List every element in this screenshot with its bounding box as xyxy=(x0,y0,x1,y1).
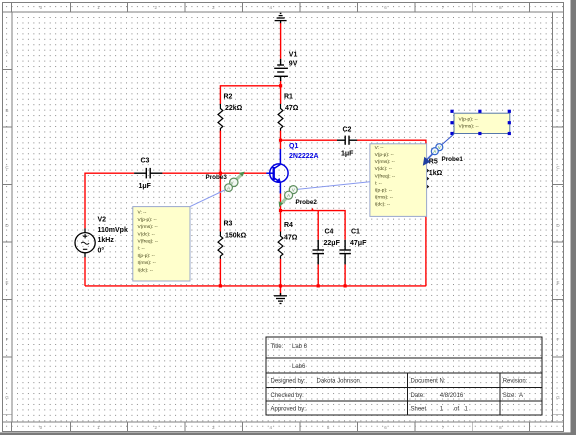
svg-text:V(freq): --: V(freq): -- xyxy=(375,173,396,179)
junction C4/rail xyxy=(317,284,320,287)
svg-text:Q1: Q1 xyxy=(289,143,298,150)
probe2 readout box xyxy=(370,144,427,217)
svg-text:I(p-p): --: I(p-p): -- xyxy=(375,188,393,194)
wire: top rail R2-top to battery junction xyxy=(220,86,280,104)
battery V1 xyxy=(274,52,297,82)
svg-text:V(dc): --: V(dc): -- xyxy=(375,166,393,172)
svg-text:A: A xyxy=(5,50,8,55)
wire: C2 right to R5 top xyxy=(357,140,426,164)
resistor R4 xyxy=(278,222,298,259)
wire: R4 top xyxy=(280,211,282,232)
svg-text:1kHz: 1kHz xyxy=(98,237,115,244)
junction C1/rail xyxy=(344,284,347,287)
svg-text:R1: R1 xyxy=(284,94,293,101)
wire: base junction to R3 top xyxy=(219,173,221,231)
AC source V2 xyxy=(75,217,128,258)
svg-text:B: B xyxy=(556,108,559,113)
svg-text:V: --: V: -- xyxy=(375,145,384,151)
svg-text:V(rms): --: V(rms): -- xyxy=(459,124,480,130)
junction R3/rail xyxy=(219,284,222,287)
wire: bottom ground stem xyxy=(280,286,282,295)
probe3 icon xyxy=(225,172,245,192)
svg-text:I(p-p): --: I(p-p): -- xyxy=(138,253,156,259)
resistor R3 xyxy=(218,221,247,259)
wire: C3 right to Q1 base xyxy=(162,172,266,174)
svg-text:A: A xyxy=(287,193,290,198)
svg-text:R2: R2 xyxy=(224,94,233,101)
svg-text:V(rms): --: V(rms): -- xyxy=(138,224,159,230)
wire: emitter junction to C1 branch xyxy=(281,211,346,240)
probe1 icon (selected blue) xyxy=(423,144,443,166)
svg-text:Lab6: Lab6 xyxy=(292,364,306,370)
svg-text:Revision:: Revision: xyxy=(503,379,528,385)
svg-text:F: F xyxy=(557,337,560,342)
wire: V2 top to C3 left xyxy=(85,173,134,228)
svg-text:G: G xyxy=(556,395,560,400)
svg-text:Probe2: Probe2 xyxy=(296,199,318,206)
ground (bottom) xyxy=(274,293,287,304)
svg-text:1kΩ: 1kΩ xyxy=(429,170,443,177)
junction battery/top-rail xyxy=(279,84,282,87)
wire: emitter to emitter junction xyxy=(280,193,282,210)
wire: top ground to battery V1 top xyxy=(280,23,282,59)
svg-text:R5: R5 xyxy=(429,159,438,166)
wire: V2 bottom to rail xyxy=(84,257,86,286)
capacitor C1 xyxy=(339,229,367,265)
junction collector/C2 xyxy=(279,139,282,142)
svg-text:Sheet: Sheet xyxy=(411,407,427,413)
svg-text:V(p-p): --: V(p-p): -- xyxy=(138,217,158,223)
probe2 attach tick on wire xyxy=(310,208,313,211)
svg-text:4/8/2016: 4/8/2016 xyxy=(440,393,464,399)
svg-text:R4: R4 xyxy=(284,222,293,229)
svg-text:C1: C1 xyxy=(351,229,360,236)
svg-text:I: --: I: -- xyxy=(375,180,383,186)
svg-text:47Ω: 47Ω xyxy=(284,235,298,242)
svg-text:150kΩ: 150kΩ xyxy=(225,233,247,240)
wire: R1 bottom to collector junction xyxy=(280,131,282,150)
svg-text:22μF: 22μF xyxy=(324,240,341,247)
svg-text:V: V xyxy=(230,180,233,185)
svg-text:Approved by:: Approved by: xyxy=(271,407,307,413)
svg-text:V(freq): --: V(freq): -- xyxy=(138,239,159,245)
wire: collector junction to C2 left xyxy=(281,139,338,141)
wire: C4 bottom to rail xyxy=(317,264,319,286)
svg-text:A: A xyxy=(519,393,523,399)
probe1 readout box (selected) xyxy=(454,113,510,133)
wire: battery V1 bottom to R1 top xyxy=(280,81,282,104)
svg-text:I(rms): --: I(rms): -- xyxy=(375,195,394,201)
resistor R5 xyxy=(424,159,443,192)
resistor R2 xyxy=(218,94,243,131)
svg-text:V(p-p): --: V(p-p): -- xyxy=(375,152,395,158)
wire: C4 top tap xyxy=(317,211,319,240)
probe1 selection handles xyxy=(450,110,511,135)
capacitor C2 xyxy=(337,127,357,158)
svg-text:R3: R3 xyxy=(224,221,233,228)
svg-text:Title:: Title: xyxy=(271,344,284,350)
svg-text:F: F xyxy=(6,337,9,342)
probe1 leader line xyxy=(442,134,454,145)
svg-text:47μF: 47μF xyxy=(350,240,367,247)
svg-text:Document N:: Document N: xyxy=(411,379,446,385)
svg-text:2N2222A: 2N2222A xyxy=(289,153,319,160)
svg-text:110mVpk: 110mVpk xyxy=(98,227,128,234)
svg-text:V(rms): --: V(rms): -- xyxy=(375,159,396,165)
transistor Q1 2N2222A xyxy=(266,143,318,194)
ground (top, inverted) xyxy=(275,13,287,23)
svg-text:1μF: 1μF xyxy=(139,183,152,190)
junction R4-ground/rail xyxy=(279,284,282,287)
svg-text:V: V xyxy=(292,187,295,192)
svg-text:I(dc): --: I(dc): -- xyxy=(138,267,154,273)
svg-text:of: of xyxy=(454,407,459,413)
svg-text:G: G xyxy=(5,395,9,400)
svg-text:A: A xyxy=(433,149,436,154)
svg-text:1μF: 1μF xyxy=(341,151,354,158)
svg-text:V2: V2 xyxy=(98,217,107,224)
svg-text:Designed by:: Designed by: xyxy=(271,379,306,385)
svg-text:C4: C4 xyxy=(325,229,334,236)
svg-text:Checked by:: Checked by: xyxy=(271,393,305,399)
svg-text:Probe1: Probe1 xyxy=(442,156,464,163)
svg-text:V1: V1 xyxy=(289,52,298,59)
capacitor C3 xyxy=(134,158,162,191)
svg-text:C3: C3 xyxy=(141,158,150,165)
svg-text:B: B xyxy=(5,108,8,113)
svg-text:I: --: I: -- xyxy=(138,246,146,252)
junction emitter node xyxy=(279,209,282,212)
svg-text:A: A xyxy=(556,50,559,55)
wire: C1 bottom to rail xyxy=(344,264,346,286)
probe3 readout box xyxy=(133,207,190,281)
wire: bottom ground rail xyxy=(85,285,426,287)
svg-text:C2: C2 xyxy=(343,127,352,134)
svg-text:V: --: V: -- xyxy=(138,210,147,216)
svg-text:0°: 0° xyxy=(98,246,105,254)
svg-text:V(dc): --: V(dc): -- xyxy=(138,231,156,237)
svg-text:V: V xyxy=(438,145,441,150)
svg-text:E: E xyxy=(5,280,8,285)
wire: R3 bottom to rail xyxy=(219,259,221,286)
svg-text:Probe3: Probe3 xyxy=(206,174,228,181)
probe2 icon xyxy=(279,186,298,208)
svg-text:Size:: Size: xyxy=(503,393,517,399)
junction base/R2-R3 xyxy=(219,172,222,175)
svg-text:9V: 9V xyxy=(289,61,298,68)
svg-text:Date:: Date: xyxy=(411,393,426,399)
resistor R1 xyxy=(278,94,299,131)
probe3 leader line xyxy=(190,189,227,207)
svg-text:Lab 6: Lab 6 xyxy=(292,344,308,350)
svg-text:I(dc): --: I(dc): -- xyxy=(375,202,391,208)
wire: R4 bottom to rail xyxy=(280,259,282,286)
wire: R2 bottom to base junction xyxy=(219,131,221,174)
svg-text:I(rms): --: I(rms): -- xyxy=(138,260,157,266)
probe2 leader line xyxy=(297,182,370,190)
window edge bars xyxy=(571,0,576,435)
svg-text:E: E xyxy=(556,280,559,285)
svg-text:47Ω: 47Ω xyxy=(285,105,299,112)
svg-text:22kΩ: 22kΩ xyxy=(225,105,243,112)
svg-text:V(p-p): --: V(p-p): -- xyxy=(459,117,479,123)
svg-text:Dakota Johnson: Dakota Johnson xyxy=(317,379,360,385)
wire: R5 bottom to ground rail xyxy=(425,191,427,286)
capacitor C4 xyxy=(313,229,341,265)
svg-text:A: A xyxy=(227,186,230,191)
